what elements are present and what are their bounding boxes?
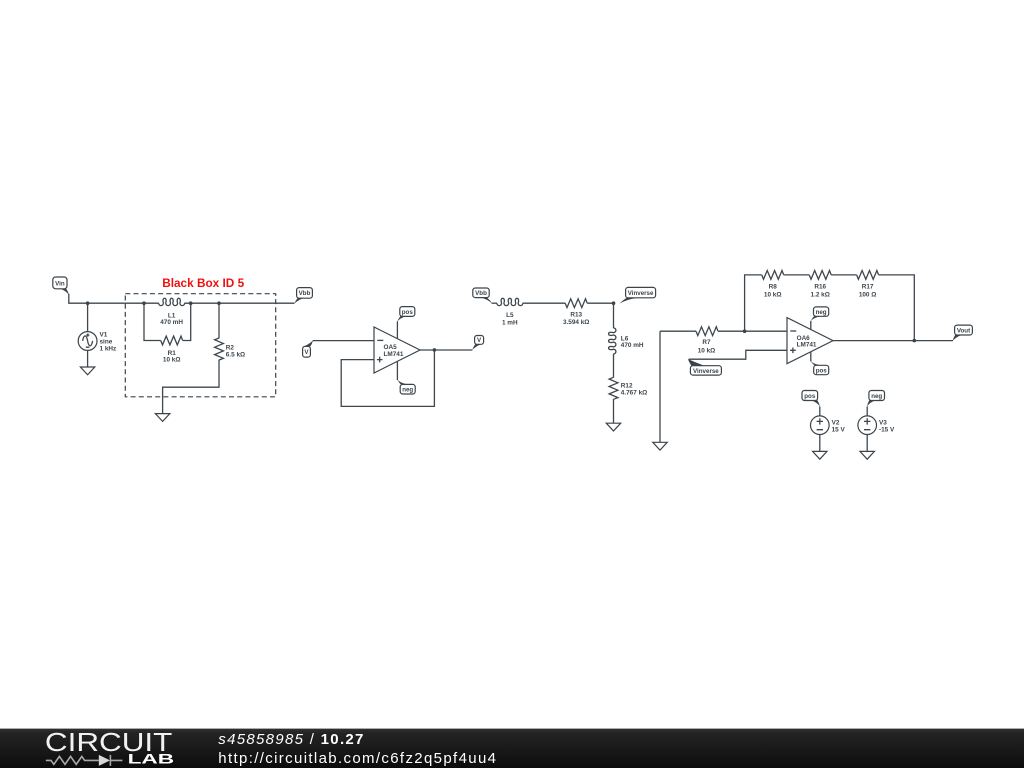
svg-text:15 V: 15 V xyxy=(832,427,846,434)
svg-text:10 kΩ: 10 kΩ xyxy=(698,348,716,355)
svg-text:LAB: LAB xyxy=(128,752,175,767)
svg-text:neg: neg xyxy=(402,387,413,394)
svg-text:neg: neg xyxy=(816,309,827,316)
svg-text:10 kΩ: 10 kΩ xyxy=(163,357,181,364)
svg-text:pos: pos xyxy=(402,309,414,316)
svg-text:V1: V1 xyxy=(100,331,108,338)
svg-text:L5: L5 xyxy=(506,312,514,319)
svg-text:Black Box ID 5: Black Box ID 5 xyxy=(162,276,244,290)
svg-text:R13: R13 xyxy=(570,312,582,319)
svg-text:100 Ω: 100 Ω xyxy=(859,292,877,299)
svg-text:Vout: Vout xyxy=(957,328,970,335)
svg-text:3.594 kΩ: 3.594 kΩ xyxy=(563,319,589,326)
svg-text:R2: R2 xyxy=(226,344,235,351)
svg-text:LM741: LM741 xyxy=(797,342,817,349)
svg-text:s45858985 / 10.27: s45858985 / 10.27 xyxy=(218,731,364,748)
svg-text:V3: V3 xyxy=(879,420,887,427)
svg-text:-15 V: -15 V xyxy=(879,427,895,434)
svg-text:Vinverse: Vinverse xyxy=(628,290,654,297)
svg-text:pos: pos xyxy=(804,393,816,400)
svg-text:R16: R16 xyxy=(814,283,826,290)
svg-text:470 mH: 470 mH xyxy=(160,319,183,326)
svg-text:http://circuitlab.com/c6fz2q5p: http://circuitlab.com/c6fz2q5pf4uu4 xyxy=(218,750,497,767)
svg-text:470 mH: 470 mH xyxy=(621,342,644,349)
svg-text:pos: pos xyxy=(816,368,828,375)
svg-text:Vbb: Vbb xyxy=(475,290,487,297)
svg-text:6.5 kΩ: 6.5 kΩ xyxy=(226,351,245,358)
svg-text:R7: R7 xyxy=(702,339,711,346)
svg-text:1 mH: 1 mH xyxy=(502,319,518,326)
svg-text:1.2 kΩ: 1.2 kΩ xyxy=(811,292,830,299)
svg-text:neg: neg xyxy=(871,393,882,400)
svg-text:LM741: LM741 xyxy=(384,351,404,358)
svg-text:sine: sine xyxy=(100,339,113,346)
svg-text:10 kΩ: 10 kΩ xyxy=(764,292,782,299)
svg-text:Vinverse: Vinverse xyxy=(693,368,719,375)
svg-text:Vin: Vin xyxy=(55,280,65,287)
svg-text:V2: V2 xyxy=(832,420,840,427)
svg-text:1 kHz: 1 kHz xyxy=(100,346,117,353)
svg-text:R12: R12 xyxy=(621,382,633,389)
svg-text:Vbb: Vbb xyxy=(299,290,311,297)
svg-text:R17: R17 xyxy=(862,283,874,290)
svg-text:R8: R8 xyxy=(769,283,778,290)
svg-text:4.767 kΩ: 4.767 kΩ xyxy=(621,389,647,396)
